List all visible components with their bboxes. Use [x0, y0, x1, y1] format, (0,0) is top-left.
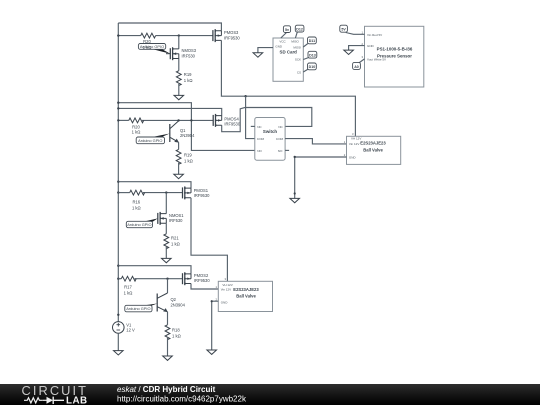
wire Q2 emitter to R18 [167, 312, 169, 325]
svg-text:Ball Valve: Ball Valve [236, 293, 256, 298]
flag D12 [295, 25, 304, 38]
wire PMOS1 drain to valve2 top [191, 198, 227, 282]
svg-text:MISO: MISO [291, 40, 299, 44]
wire Q2 collector [167, 279, 169, 293]
ground (cell A) [174, 95, 184, 99]
wire NMOS3 drain [178, 36, 180, 49]
svg-text:1 kΩ: 1 kΩ [184, 159, 193, 164]
wire PMOS3 drain to valve top [221, 40, 355, 136]
svg-text:VH 12V: VH 12V [351, 137, 361, 141]
svg-text:Vin 12V: Vin 12V [349, 142, 359, 146]
svg-text:IRF530: IRF530 [182, 53, 196, 58]
resistor R20 (cell A) [141, 33, 156, 44]
wire valve2 GND to ground [211, 300, 219, 350]
svg-text:5V: 5V [341, 28, 346, 32]
node junction Q1 collector [177, 119, 179, 121]
label Arduino GPIO (cell C) [126, 218, 158, 227]
svg-text:http://circuitlab.com/c9462p7y: http://circuitlab.com/c9462p7ywb22k [117, 394, 247, 403]
ground (valve2) [207, 350, 217, 354]
svg-text:COM: COM [257, 137, 265, 141]
flag 5v (SD) [281, 26, 291, 38]
svg-text:CS: CS [297, 70, 301, 74]
svg-text:IRF9530: IRF9530 [194, 193, 210, 198]
transistor PMOS3 [213, 29, 241, 42]
svg-text:1 kΩ: 1 kΩ [171, 242, 180, 247]
pressure sensor PS1 [362, 26, 424, 87]
svg-text:R21: R21 [171, 236, 179, 241]
svg-text:Vin Red 5V: Vin Red 5V [367, 33, 382, 37]
ground (cell B) [174, 174, 184, 178]
svg-text:SCK: SCK [295, 58, 301, 62]
wire cell B line1 to switch NO [118, 103, 255, 151]
svg-text:2N3904: 2N3904 [171, 302, 186, 307]
svg-text:NO: NO [278, 149, 283, 153]
svg-text:E2S23AJE23: E2S23AJE23 [360, 141, 386, 146]
transistor Q1 2N3904 [170, 121, 195, 143]
wire PMOS2 drain to valve2 [191, 284, 218, 290]
resistor R18 [165, 325, 181, 340]
svg-text:D10: D10 [309, 65, 316, 69]
footer logo CIRCUIT [22, 383, 89, 398]
ground (sensor) [344, 50, 354, 54]
footer title text [117, 385, 247, 404]
footer bar [0, 384, 540, 405]
wire top rail cell A [118, 23, 221, 31]
transistor PMOS2 [183, 272, 211, 285]
wire NMOS1 source to R21 [165, 223, 167, 234]
svg-text:2N3904: 2N3904 [180, 133, 195, 138]
svg-text:E2S23AJE23: E2S23AJE23 [233, 287, 259, 292]
resistor R20 (cell B) [129, 118, 144, 135]
label Arduino GPIO (cell B) [136, 134, 170, 144]
wire cell D gate line [118, 278, 182, 280]
ground (V1) [114, 351, 124, 355]
transistor Q2 2N3904 [157, 293, 185, 312]
flag D13 [303, 51, 317, 59]
switch SW1 [251, 118, 289, 161]
valve E2S23AJE23 (right) [344, 132, 401, 165]
wire SD GND to ground [258, 48, 273, 53]
resistor R21 [164, 234, 180, 249]
svg-text:MOSI: MOSI [293, 45, 301, 49]
node junction A1 [178, 34, 180, 36]
svg-text:Arduino GPIO: Arduino GPIO [126, 306, 150, 311]
SD Card module [273, 38, 303, 81]
ground (valve1/switch) [290, 198, 300, 202]
svg-text:NC: NC [278, 125, 283, 129]
svg-text:VCC: VCC [279, 40, 286, 44]
flag 5V (sensor) [340, 25, 365, 34]
label Arduino GPIO (cell D) [125, 304, 157, 312]
resistor R19 (cell A) [176, 71, 192, 86]
svg-text:R18: R18 [172, 327, 180, 332]
rail junction dots [117, 34, 119, 36]
wire V1 to ground [117, 333, 119, 350]
node junction Q2 collector [166, 278, 168, 280]
transistor NMOS3 [166, 47, 197, 60]
svg-text:GND: GND [275, 45, 283, 49]
transistor PMOS1 [183, 186, 211, 199]
svg-text:12 V: 12 V [126, 328, 135, 333]
svg-text:NO: NO [257, 149, 262, 153]
wire cell C gate line [118, 192, 182, 194]
node junction B-cross [190, 119, 192, 121]
svg-text:D11: D11 [309, 39, 315, 43]
svg-text:GND: GND [349, 155, 357, 159]
transistor NMOS1 [158, 212, 184, 225]
svg-text:1 kΩ: 1 kΩ [132, 130, 141, 135]
wire R19 to ground [178, 84, 180, 96]
svg-text:LAB: LAB [66, 396, 88, 405]
wire switch right COM to valve1 [285, 139, 346, 144]
svg-text:5v: 5v [285, 28, 289, 32]
wire PMOS4 drain loop [222, 107, 246, 131]
svg-text:A0: A0 [354, 65, 359, 69]
svg-text:R16: R16 [132, 200, 140, 205]
node junction switch-feed [244, 95, 246, 97]
wire NMOS1 drain [165, 193, 167, 214]
node junction NMOS1 drain [165, 191, 167, 193]
svg-text:IRF9530: IRF9530 [224, 35, 240, 40]
wire R21 to ground [165, 247, 167, 258]
wire cell C top rail [118, 182, 191, 188]
svg-text:eskat / CDR Hybrid Circuit: eskat / CDR Hybrid Circuit [117, 385, 216, 394]
svg-text:VH 12V: VH 12V [222, 283, 232, 287]
wire R19B to ground [178, 163, 180, 175]
wire gate line cell A [118, 35, 213, 37]
svg-text:NC: NC [257, 125, 262, 129]
wire sensor GND to ground [349, 46, 365, 51]
wire R18 to ground [167, 338, 169, 356]
svg-text:1 kΩ: 1 kΩ [143, 45, 152, 50]
flag D10 [303, 63, 316, 72]
svg-text:GND: GND [221, 300, 229, 304]
wire NMOS3 source to R19 [178, 59, 180, 71]
svg-text:R17: R17 [124, 284, 132, 289]
svg-text:D13: D13 [309, 54, 316, 58]
flag A0 [353, 59, 365, 70]
svg-text:Vin 12V: Vin 12V [221, 288, 231, 292]
wire Q1 emitter to R19 [178, 142, 180, 149]
svg-text:1 kΩ: 1 kΩ [132, 206, 141, 211]
svg-text:Switch: Switch [263, 129, 277, 134]
wire cell B gate line [118, 119, 213, 121]
svg-text:SD Card: SD Card [280, 50, 298, 55]
svg-text:GND: GND [367, 44, 375, 48]
ground (cell D) [163, 356, 173, 360]
footer logo resistor-diode symbol [24, 396, 88, 405]
svg-text:1 kΩ: 1 kΩ [172, 333, 181, 338]
svg-text:Ball Valve: Ball Valve [363, 148, 383, 153]
svg-text:1 kΩ: 1 kΩ [184, 78, 193, 83]
ground (cell C) [162, 258, 172, 262]
svg-text:R19: R19 [184, 72, 192, 77]
resistor R17 [121, 276, 136, 295]
transistor PMOS4 [213, 114, 241, 127]
resistor R19 (cell B) [176, 149, 193, 164]
flag D11 [303, 37, 316, 47]
svg-text:Vout White 5V: Vout White 5V [367, 57, 386, 61]
svg-text:1 kΩ: 1 kΩ [124, 290, 133, 295]
label Arduino GPIO (cell A) [138, 44, 170, 54]
svg-text:R19: R19 [184, 153, 192, 158]
svg-text:IRF9530: IRF9530 [194, 278, 210, 283]
wire cell D top rail [118, 266, 191, 274]
svg-text:IRF9530: IRF9530 [224, 121, 240, 126]
wire switch NC loop [246, 108, 312, 127]
svg-text:PS1-1000-5-B-I36: PS1-1000-5-B-I36 [377, 46, 413, 51]
svg-text:IRF530: IRF530 [169, 218, 183, 223]
svg-text:Arduino GPIO: Arduino GPIO [138, 138, 162, 143]
svg-text:COM: COM [276, 137, 284, 141]
source V1 12V [113, 322, 135, 334]
svg-text:D12: D12 [296, 27, 303, 31]
wire cell B line2 to PMOS4 source [118, 108, 221, 115]
ground (SD card) [253, 53, 263, 57]
wire valve1 GND to ground [294, 156, 347, 199]
wire switch COM vertical [246, 96, 255, 138]
wire left rail [117, 23, 119, 322]
svg-text:Arduino GPIO: Arduino GPIO [127, 222, 151, 227]
resistor R16 [130, 190, 145, 210]
valve E2S23AJE23 (bottom) [216, 277, 273, 312]
